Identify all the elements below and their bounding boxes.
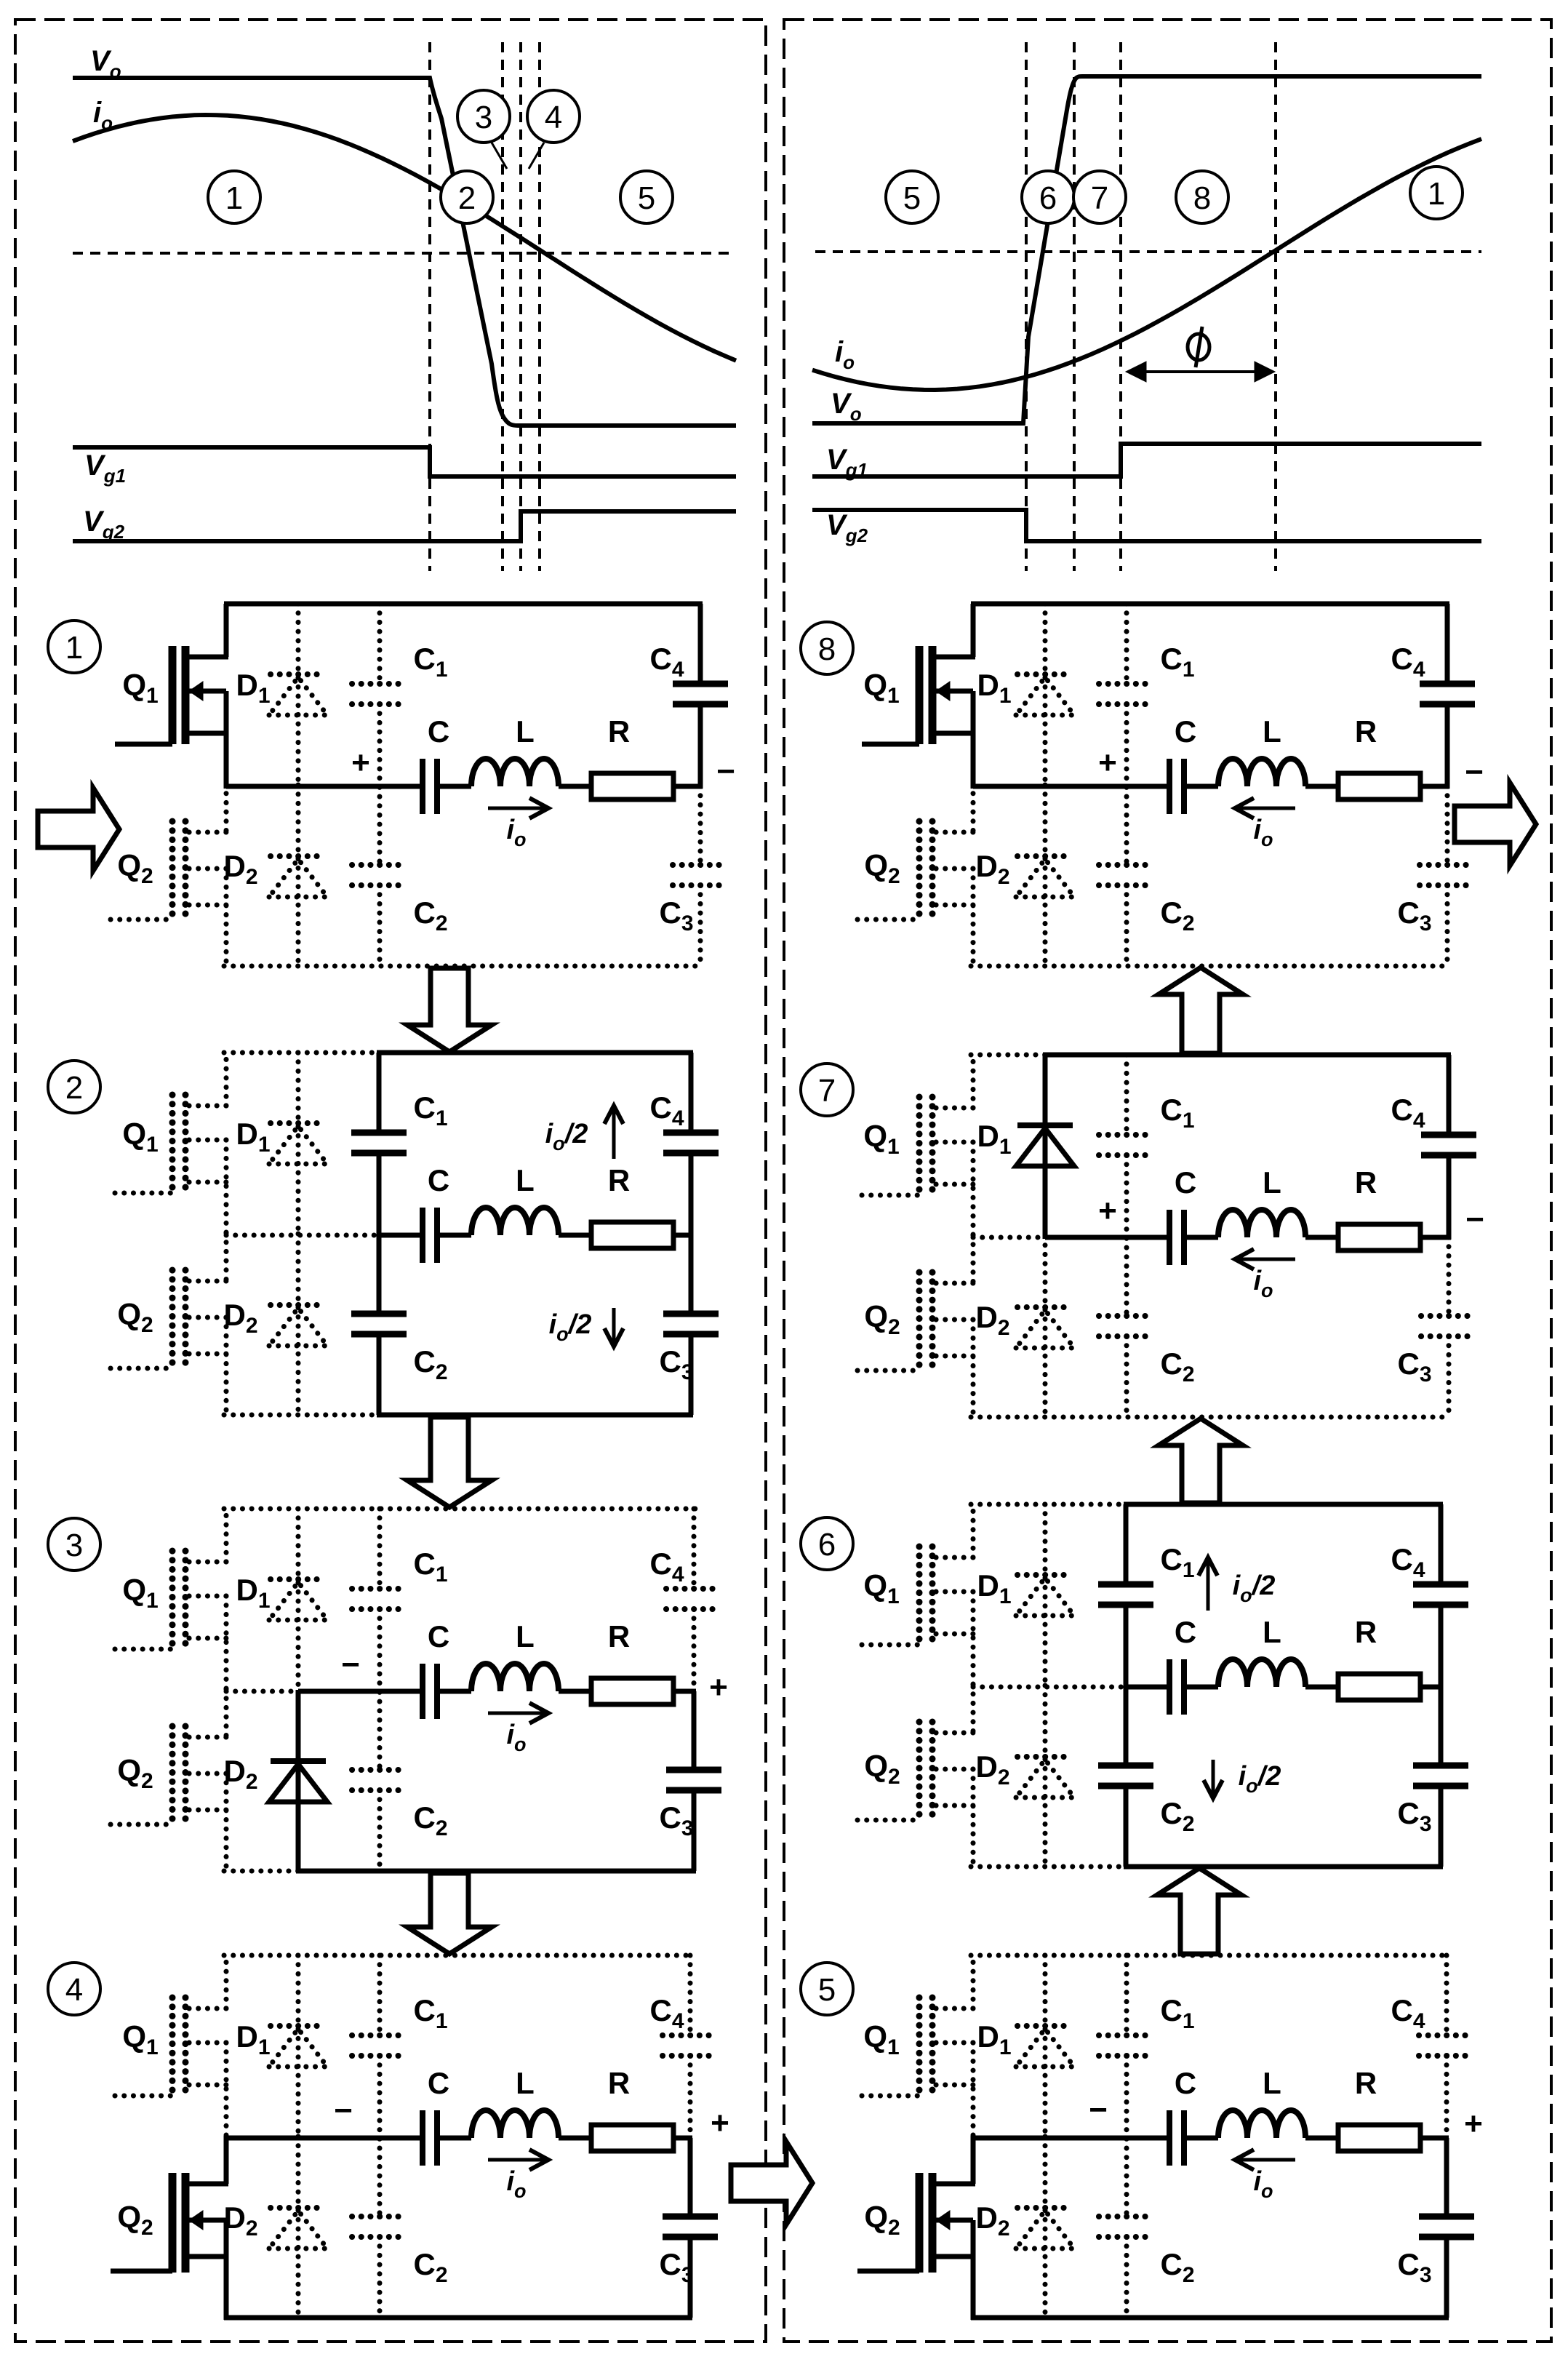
wire bottom rail (dotted): [971, 1415, 1451, 1420]
inductor L: [1218, 1210, 1305, 1237]
capacitor C1: [351, 1133, 407, 1153]
current arrow io/2 down: [604, 1308, 623, 1346]
svg-text:+: +: [351, 745, 370, 781]
wire R to right rail: [673, 1233, 693, 1238]
wire C1 branch upper: [1124, 1504, 1129, 1584]
dashed state boundary x=1541: [1119, 42, 1122, 571]
inductor L: [471, 1208, 559, 1235]
wire C2 branch lower: [377, 2237, 383, 2318]
svg-text:2: 2: [458, 180, 476, 216]
wire right rail mid to C3: [698, 786, 703, 865]
wire top rail solid (cap box): [1124, 1502, 1443, 1507]
svg-text:L: L: [516, 1619, 535, 1653]
interval circle 8: [1176, 171, 1228, 223]
svg-text:5: 5: [818, 1972, 836, 2008]
resistor R: [1338, 773, 1420, 799]
wire R to right rail: [1420, 1685, 1443, 1690]
svg-text:2: 2: [65, 1070, 83, 1106]
current arrow io: [488, 798, 548, 818]
svg-text:−: −: [1465, 754, 1484, 790]
wire diode branch upper: [296, 1053, 301, 1237]
wire mid rail (output node): [379, 1233, 423, 1238]
wire right rail mid to C3: [689, 1235, 694, 1314]
state number circle 8: [801, 622, 853, 674]
wire mid rail (output node): [973, 784, 1169, 789]
svg-text:C: C: [1175, 1615, 1196, 1649]
phase angle arrow: [1126, 362, 1275, 382]
wire diode branch upper: [1043, 1055, 1048, 1239]
inductor L: [471, 2110, 559, 2138]
wire right rail lower segment: [1439, 1786, 1444, 1867]
interval circle 4: [527, 90, 580, 143]
svg-text:6: 6: [818, 1527, 836, 1563]
current arrow io: [1235, 2150, 1295, 2170]
diode D1: [269, 674, 327, 715]
inductor L: [471, 1664, 559, 1691]
leader line circle 3: [492, 143, 507, 169]
wire diode branch upper: [1043, 604, 1048, 788]
waveform Vo trace (right): [812, 76, 1481, 423]
capacitor C4: [1419, 2035, 1474, 2056]
wire right rail C4 to mid: [1447, 1155, 1452, 1240]
inductor L: [1218, 759, 1305, 786]
wire mid rail C to L: [437, 1689, 471, 1694]
dashed state boundary x=1411: [1025, 42, 1028, 571]
wire bottom rail dotted segment: [224, 1413, 379, 1418]
capacitor C3: [1420, 865, 1475, 885]
wire diode branch lower: [1043, 2136, 1048, 2318]
capacitor C4: [663, 1133, 719, 1153]
wire diode branch upper: [296, 604, 301, 788]
svg-text:R: R: [608, 1163, 630, 1197]
diode D2: [1016, 1307, 1074, 1348]
diode D1: [1016, 1575, 1074, 1616]
wire C1 branch upper: [1124, 1955, 1129, 2035]
interval circle 5: [620, 171, 673, 223]
wire right rail lower segment: [692, 1790, 697, 1871]
wire bottom rail dotted segment: [224, 1869, 298, 1874]
transistor Q1: [115, 604, 228, 789]
interval circle 5 (right): [886, 171, 938, 223]
svg-text:−: −: [341, 1647, 360, 1683]
wire mid rail (output node): [226, 2136, 423, 2141]
svg-text:R: R: [1355, 1165, 1377, 1200]
interval circle 7: [1073, 171, 1126, 223]
svg-text:L: L: [1263, 1615, 1281, 1649]
wire right rail lower segment: [1445, 885, 1450, 966]
capacitor C (series): [423, 759, 437, 814]
wire mid rail dotted segment: [973, 1235, 1045, 1240]
svg-text:8: 8: [1193, 180, 1211, 216]
wire L to R: [1305, 784, 1338, 789]
diode D1: [269, 2026, 327, 2067]
wire top rail (dotted, state 5): [971, 1953, 1449, 1958]
state number circle 3: [48, 1518, 100, 1571]
svg-text:R: R: [1355, 2066, 1377, 2100]
transistor Q1: [115, 1955, 228, 2140]
wire right rail upper segment: [1445, 604, 1450, 684]
transistor Q1: [862, 1055, 975, 1240]
wire right rail upper segment: [688, 1955, 693, 2035]
interval circle 3: [457, 90, 510, 143]
transistor Q2: [857, 1685, 975, 1869]
wire C1 branch upper: [377, 604, 383, 684]
diode D2: [269, 2208, 327, 2249]
wire C1 branch upper: [377, 1053, 382, 1133]
diode D1: [1016, 2026, 1074, 2067]
phase angle phi label: [1188, 327, 1209, 367]
wire L to R: [1305, 2136, 1338, 2141]
transistor Q2: [111, 2136, 228, 2320]
wire mid rail C to L: [437, 2136, 471, 2141]
svg-text:−: −: [716, 754, 735, 789]
capacitor C2: [1099, 1316, 1154, 1336]
wire bottom rail: [971, 2315, 1449, 2321]
inductor L: [1218, 1659, 1305, 1687]
capacitor C (series): [1169, 1659, 1184, 1715]
svg-text:C: C: [1175, 2066, 1196, 2100]
capacitor C3: [663, 2217, 718, 2237]
wire right rail lower segment: [698, 885, 703, 966]
wire R to right rail: [673, 1689, 696, 1694]
wire mid rail C to L: [1184, 784, 1218, 789]
diode D2: [269, 1761, 327, 1802]
wire top rail dotted segment (state 2): [224, 1050, 379, 1056]
dashed state boundary x=716: [519, 42, 522, 571]
svg-text:5: 5: [903, 180, 921, 216]
wire right rail C4 to mid: [1444, 2056, 1449, 2140]
wire right rail mid to C3: [1439, 1687, 1444, 1765]
wire bottom rail (dotted): [224, 964, 703, 969]
wire bottom rail: [224, 2315, 692, 2321]
svg-text:L: L: [516, 2066, 535, 2100]
svg-text:+: +: [1098, 1193, 1117, 1229]
wire diode branch upper: [296, 1509, 301, 1693]
resistor R: [591, 2125, 673, 2151]
svg-text:5: 5: [638, 180, 655, 216]
capacitor C4: [1421, 1135, 1476, 1155]
svg-text:4: 4: [65, 1972, 83, 2008]
wire C1 branch upper: [377, 1509, 383, 1589]
wire bottom rail solid (cap box): [377, 1413, 693, 1418]
interval circle 6: [1022, 171, 1074, 223]
svg-text:R: R: [608, 1619, 630, 1653]
wire right rail C4 to mid: [1439, 1605, 1444, 1689]
resistor R: [591, 1678, 673, 1704]
svg-text:+: +: [1098, 745, 1117, 781]
svg-text:3: 3: [475, 100, 492, 135]
wire R to right rail: [1420, 1235, 1451, 1240]
wire bottom rail dotted segment: [971, 1864, 1126, 1870]
capacitor C1: [1098, 1584, 1153, 1605]
wire mid rail C to L: [1184, 2136, 1218, 2141]
svg-text:−: −: [334, 2093, 353, 2128]
waveform Vg2 trace (left): [73, 511, 736, 541]
wire diode branch lower: [296, 1690, 301, 1871]
capacitor C3: [673, 865, 728, 885]
wire right rail C4 to mid: [689, 1153, 694, 1237]
svg-text:C: C: [428, 1619, 449, 1653]
wire L to R: [1305, 1685, 1338, 1690]
wire bottom rail (dotted): [971, 964, 1449, 969]
wire right rail C4 to mid: [692, 1609, 697, 1693]
capacitor C1: [352, 1589, 407, 1609]
capacitor C4: [663, 2035, 718, 2056]
dashed state boundary x=591: [428, 42, 431, 571]
flow arrow into state 1: [38, 788, 119, 871]
svg-text:io/2: io/2: [1239, 1761, 1281, 1797]
capacitor C3: [663, 1314, 719, 1334]
wire R to right rail: [673, 784, 703, 789]
wire mid rail (output node): [226, 784, 423, 789]
capacitor C2: [352, 1770, 407, 1790]
capacitor C2: [352, 2217, 407, 2237]
svg-text:1: 1: [1428, 176, 1445, 212]
flow arrow state 5 to 6: [1157, 1868, 1241, 1954]
capacitor C (series): [423, 1664, 437, 1719]
wire right rail mid to C3: [688, 2138, 693, 2217]
wire C2 branch lower: [377, 1790, 383, 1871]
svg-text:R: R: [608, 714, 630, 749]
left panel dashed border: [15, 20, 766, 2342]
diode D2: [1016, 1757, 1074, 1798]
capacitor C2: [1098, 1765, 1153, 1786]
wire C1-C2 branch middle: [1124, 1155, 1129, 1316]
diode D1: [1016, 674, 1074, 715]
resistor R: [591, 1222, 673, 1248]
wire C1 branch upper: [377, 1955, 383, 2035]
svg-text:C: C: [1175, 1165, 1196, 1200]
wire diode branch lower: [1043, 1685, 1048, 1867]
capacitor C3: [666, 1770, 721, 1790]
svg-text:io/2: io/2: [545, 1119, 588, 1154]
diode D2: [1016, 856, 1074, 897]
diode D1: [1016, 1125, 1074, 1166]
capacitor C1: [1099, 2035, 1154, 2056]
waveform Vg2 trace (right): [812, 510, 1481, 541]
transistor Q2: [857, 784, 975, 968]
wire mid rail (output node): [298, 1689, 423, 1694]
wire L to R: [1305, 1235, 1338, 1240]
state number circle 5: [801, 1963, 853, 2015]
capacitor C (series): [423, 2110, 437, 2166]
current arrow io: [488, 1703, 548, 1723]
waveform Vo trace (left): [73, 78, 736, 426]
right panel dashed border: [784, 20, 1551, 2342]
wire bottom rail solid: [296, 1869, 696, 1874]
svg-text:8: 8: [818, 631, 836, 667]
wire L to R: [559, 1689, 591, 1694]
capacitor C3: [1413, 1765, 1468, 1786]
wire R to right rail: [1420, 2136, 1449, 2141]
current arrow io/2 up: [604, 1106, 623, 1159]
wire diode branch lower: [296, 785, 301, 966]
interval circle 2: [441, 171, 493, 223]
wire C1-C2 branch middle: [1124, 704, 1129, 865]
capacitor C (series): [423, 1208, 437, 1263]
flow arrow state 6 to 7: [1159, 1419, 1243, 1503]
wire L to R: [559, 2136, 591, 2141]
svg-text:R: R: [608, 2066, 630, 2100]
flow arrow out of state 8: [1455, 783, 1536, 866]
wire top rail (state 1): [224, 602, 703, 607]
wire mid rail dotted segment: [973, 1685, 1126, 1690]
wire top rail (dotted, state 4): [224, 1953, 692, 1958]
capacitor C (series): [1169, 2110, 1184, 2166]
svg-text:L: L: [516, 714, 535, 749]
wire bottom rail solid (cap box): [1124, 1864, 1443, 1870]
transistor Q2: [111, 784, 228, 968]
wire C1-C2 branch middle: [377, 704, 383, 865]
svg-text:C: C: [1175, 714, 1196, 749]
wire R to right rail: [1420, 784, 1449, 789]
wire mid rail C to L: [437, 1233, 471, 1238]
capacitor C2: [1099, 865, 1154, 885]
capacitor C1: [352, 684, 407, 704]
wire L to R: [559, 1233, 591, 1238]
capacitor C3: [1419, 2217, 1474, 2237]
transistor Q2: [111, 1233, 228, 1417]
dashed state boundary x=742: [538, 42, 541, 571]
state number circle 6: [801, 1517, 853, 1570]
waveform io trace (left): [73, 115, 736, 361]
svg-text:C: C: [428, 1163, 449, 1197]
capacitor C4: [1413, 1584, 1468, 1605]
transistor Q2: [111, 1689, 228, 1873]
transistor Q2: [857, 2136, 975, 2320]
state number circle 4: [48, 1963, 100, 2015]
wire mid rail C to L: [437, 784, 471, 789]
wire mid rail C to L: [1184, 1235, 1218, 1240]
svg-text:C: C: [428, 714, 449, 749]
capacitor C1: [352, 2035, 407, 2056]
wire right rail C4 to mid: [688, 2056, 693, 2140]
resistor R: [1338, 1674, 1420, 1700]
wire right rail lower segment: [1447, 1336, 1452, 1417]
wire C1-C2 branch middle: [377, 1609, 383, 1770]
capacitor C3: [1421, 1316, 1476, 1336]
current arrow io/2 down: [1204, 1760, 1223, 1798]
wire right rail mid to C3: [692, 1691, 697, 1770]
state number circle 1: [48, 621, 100, 673]
transistor Q1: [115, 1053, 228, 1237]
wire right rail upper segment: [692, 1509, 697, 1589]
waveform Vg1 trace (right): [812, 444, 1481, 476]
svg-text:7: 7: [818, 1073, 836, 1109]
wire right rail lower segment: [688, 2237, 693, 2318]
inductor L: [471, 759, 559, 786]
capacitor C1: [1099, 1135, 1154, 1155]
transistor Q1: [862, 1955, 975, 2140]
wire diode branch lower: [296, 1234, 301, 1415]
transistor Q1: [862, 1504, 975, 1689]
wire right rail lower segment: [1444, 2237, 1449, 2318]
wire top rail (state 8): [971, 602, 1449, 607]
wire right rail upper segment: [698, 604, 703, 684]
wire mid rail (output node): [1126, 1685, 1169, 1690]
wire top rail dotted segment (state 6): [971, 1502, 1126, 1507]
transistor Q2: [857, 1235, 975, 1419]
wire diode branch lower: [1043, 1236, 1048, 1417]
waveform io trace (right): [812, 139, 1481, 390]
wire top rail dotted segment (state 7): [971, 1053, 1045, 1058]
flow arrow state 3 to 4: [407, 1873, 492, 1954]
diode D1: [269, 1579, 327, 1620]
transistor Q1: [862, 604, 975, 789]
resistor R: [1338, 2125, 1420, 2151]
wire mid rail dotted segment: [226, 1689, 298, 1694]
svg-text:L: L: [1263, 2066, 1281, 2100]
leader line circle 4: [529, 143, 544, 169]
capacitor C2: [352, 865, 407, 885]
wire top rail solid: [1043, 1053, 1451, 1058]
wire C1-C2 branch middle: [377, 2056, 383, 2217]
transistor Q1: [115, 1509, 228, 1693]
wire right rail mid to C3: [1445, 786, 1450, 865]
capacitor C (series): [1169, 759, 1184, 814]
wire right rail upper segment: [1447, 1055, 1452, 1135]
wire diode branch lower: [296, 2136, 301, 2318]
wire diode branch lower: [1043, 785, 1048, 966]
svg-text:L: L: [1263, 1165, 1281, 1200]
flow arrow state 4 to 5: [731, 2142, 812, 2225]
wire right rail upper segment: [1444, 1955, 1449, 2035]
wire mid rail C to L: [1184, 1685, 1218, 1690]
resistor R: [591, 773, 673, 799]
interval circle 1: [208, 171, 260, 223]
svg-text:C: C: [428, 2066, 449, 2100]
svg-text:R: R: [1355, 1615, 1377, 1649]
svg-text:io/2: io/2: [549, 1309, 592, 1345]
dashed state boundary x=1477: [1073, 42, 1076, 571]
capacitor C (series): [1169, 1210, 1184, 1265]
wire right rail mid to C3: [1447, 1237, 1452, 1316]
capacitor C2: [1099, 2217, 1154, 2237]
resistor R: [1338, 1224, 1420, 1250]
diode D2: [269, 1305, 327, 1346]
wire C2 branch lower: [377, 1334, 382, 1415]
svg-text:+: +: [709, 1669, 728, 1705]
wire C2 branch lower: [1124, 2237, 1129, 2318]
capacitor C2: [351, 1314, 407, 1334]
flow arrow state 1 to 2: [407, 968, 492, 1052]
svg-text:4: 4: [545, 100, 562, 135]
svg-text:7: 7: [1091, 180, 1108, 216]
wire top rail solid (cap box): [377, 1050, 693, 1056]
dashed midline (right): [815, 250, 1481, 253]
svg-text:−: −: [1465, 1202, 1484, 1237]
wire right rail C4 to mid: [1445, 704, 1450, 789]
dashed state boundary x=691: [501, 42, 504, 571]
wire R to right rail: [673, 2136, 692, 2141]
wire C2 branch lower: [1124, 885, 1129, 966]
wire right rail upper segment: [689, 1053, 694, 1133]
svg-text:1: 1: [225, 180, 243, 216]
svg-text:io/2: io/2: [1233, 1571, 1276, 1606]
diode D2: [1016, 2208, 1074, 2249]
interval circle 1 (right): [1410, 167, 1463, 219]
wire L to R: [559, 784, 591, 789]
current arrow io: [488, 2150, 548, 2170]
wire right rail upper segment: [1439, 1504, 1444, 1584]
flow arrow state 2 to 3: [407, 1417, 492, 1507]
svg-text:+: +: [1464, 2106, 1483, 2142]
current arrow io/2 up: [1199, 1557, 1217, 1611]
wire diode branch upper: [296, 1955, 301, 2139]
capacitor C1: [1099, 684, 1154, 704]
waveform Vg1 trace (left): [73, 447, 736, 476]
wire C2 branch lower: [1124, 1336, 1129, 1417]
